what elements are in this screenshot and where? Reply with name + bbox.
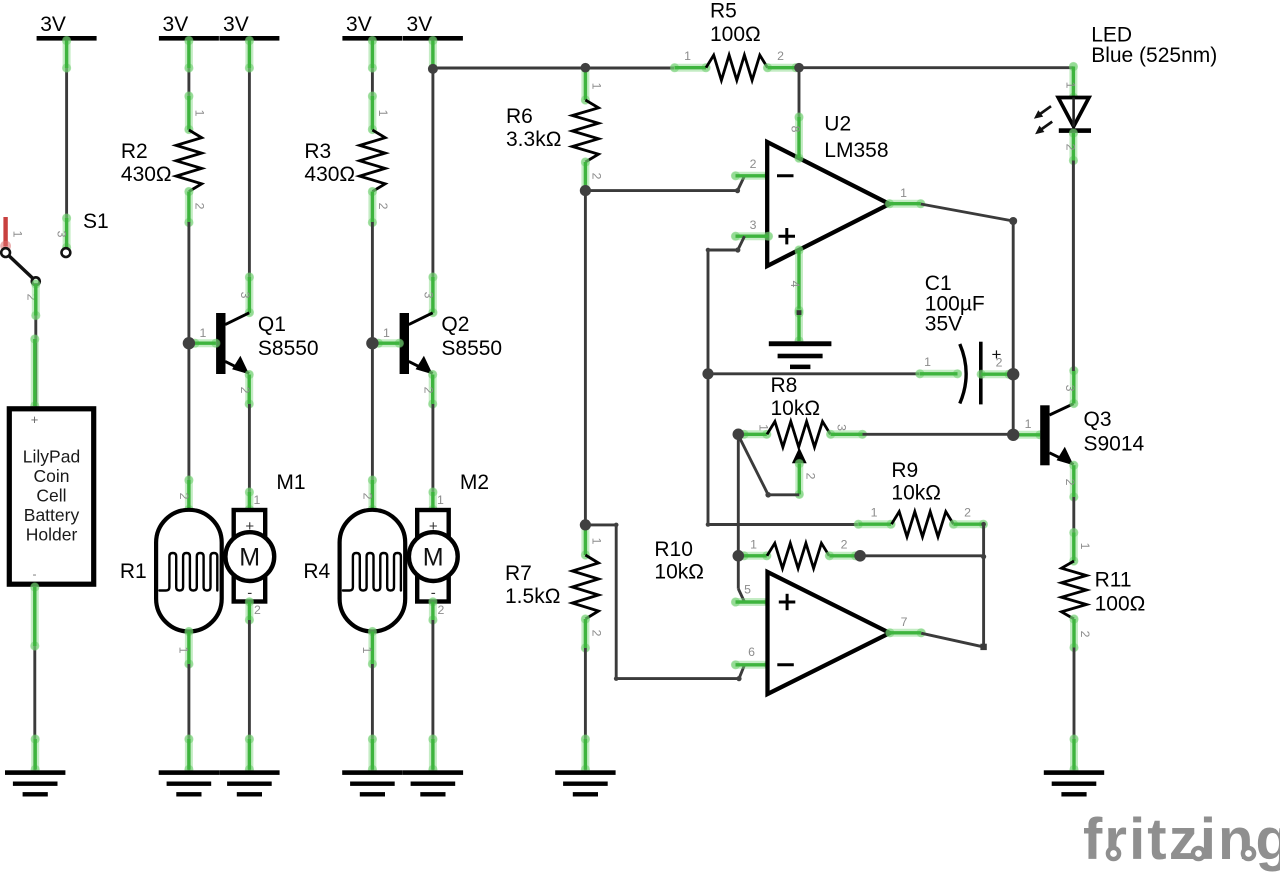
switch S1 pin1 red stub — [0, 217, 11, 251]
leg motor M2 pin 2 — [428, 597, 437, 624]
leg C1 pin 1 — [915, 369, 962, 378]
leg R8 pin 1 — [739, 430, 771, 439]
wire — [371, 41, 374, 131]
pin label R7-1 — [590, 538, 604, 545]
svg-text:3V: 3V — [163, 13, 189, 36]
leg U2 pin 7 (out B) — [885, 628, 926, 637]
power +3V P1 (S1 supply) — [37, 13, 97, 41]
leg U2 pin 1 (out A) — [885, 199, 926, 208]
svg-text:3V: 3V — [223, 13, 249, 36]
svg-text:2: 2 — [996, 356, 1003, 370]
svg-text:+: + — [31, 412, 39, 427]
leg U2 pin 4 (V-) — [794, 245, 803, 315]
node bendpoint R8 wiper — [765, 492, 771, 498]
leg R10 pin 1 — [739, 551, 771, 560]
leg U2 pin 2 (inverting in) — [731, 171, 773, 180]
pin label R2-1 — [192, 110, 206, 117]
svg-text:2: 2 — [590, 173, 604, 180]
label R4 — [303, 560, 330, 583]
pin label R8-3 — [835, 424, 849, 431]
transistor Q2 S8550 — [400, 313, 433, 374]
wire C1row junction down then right to R9 — [708, 374, 858, 525]
node bendpoint U2 pin3 — [735, 247, 740, 252]
svg-text:fritzing: fritzing — [1083, 807, 1280, 872]
LED D1 Blue 525nm — [1058, 98, 1091, 133]
label R2 — [121, 140, 172, 186]
wire — [433, 67, 674, 70]
wire — [738, 176, 745, 191]
pin label U2-1 — [900, 186, 907, 200]
wire out A down to C1 — [1012, 221, 1015, 435]
leg R8 pin 3 — [826, 430, 867, 439]
ground G8 (U2 pin4) — [769, 341, 832, 369]
wire Q3 emitter to R11 — [1072, 497, 1075, 533]
svg-text:1: 1 — [176, 647, 190, 654]
fritzing logo watermark — [1083, 807, 1280, 872]
pin label U2-8 — [789, 126, 803, 133]
wire — [585, 189, 737, 192]
pin label R2-2 — [192, 203, 206, 210]
svg-text:Cell: Cell — [36, 486, 66, 506]
svg-text:U2: U2 — [824, 113, 851, 136]
svg-text:R9: R9 — [891, 459, 918, 482]
leg R11 pin 2 — [1069, 614, 1078, 652]
pin label R9-2 — [964, 506, 971, 520]
svg-text:M2: M2 — [460, 471, 489, 494]
leg ground G1 stub — [31, 734, 40, 774]
ground G6 (R7) — [555, 770, 615, 796]
svg-text:S8550: S8550 — [441, 337, 502, 360]
leg U2 pin 3 (non-inverting in) — [731, 232, 773, 241]
svg-text:2: 2 — [437, 603, 444, 617]
node corner R9 pin2 — [981, 522, 986, 527]
leg LED pin 1 (anode) — [1069, 62, 1078, 102]
svg-text:R8: R8 — [771, 374, 798, 397]
pin label LED-1 — [1064, 82, 1078, 89]
leg Q1 pin 3 (collector) — [245, 272, 254, 317]
svg-text:1: 1 — [871, 506, 878, 520]
R8 wiper arrow — [792, 448, 807, 464]
pin label R10-2 — [841, 538, 848, 552]
svg-text:100Ω: 100Ω — [710, 23, 761, 46]
label C1 — [925, 272, 985, 336]
svg-text:1: 1 — [376, 110, 390, 117]
svg-text:35V: 35V — [925, 313, 962, 336]
leg 3V pin above Q1 collector — [245, 36, 254, 73]
pin label R7-2 — [590, 630, 604, 637]
leg Q3 pin 1 (base) — [1009, 430, 1045, 439]
resistor R3 430&#937; — [360, 130, 386, 192]
pin label S1-1 — [11, 231, 25, 238]
leg 3V P1 pin — [62, 36, 71, 73]
svg-text:Battery: Battery — [24, 505, 80, 525]
svg-text:1: 1 — [192, 110, 206, 117]
svg-text:S1: S1 — [83, 210, 109, 233]
node corner R7row — [614, 523, 619, 528]
leg ground stub under U2 — [794, 308, 803, 345]
svg-text:M: M — [423, 544, 444, 572]
power +3V P4 (R3 supply) — [342, 13, 402, 41]
resistor R8 10k&#937; (trimmer) — [767, 422, 830, 448]
svg-text:2: 2 — [238, 387, 252, 394]
resistor R11 100&#937; — [1062, 561, 1087, 619]
svg-text:430Ω: 430Ω — [121, 163, 172, 186]
svg-text:8: 8 — [789, 126, 803, 133]
leg 3V pin above R2 — [184, 36, 193, 73]
svg-text:R11: R11 — [1095, 569, 1132, 592]
leg LED pin 2 (cathode) — [1069, 128, 1078, 165]
svg-text:1: 1 — [750, 538, 757, 552]
leg Q2 pin 3 (collector) — [428, 272, 437, 317]
LED light arrows — [1034, 106, 1052, 134]
wire — [371, 664, 374, 770]
pin label U2-2 — [750, 157, 757, 171]
node S1 pin3 terminal — [62, 248, 71, 257]
wire R8 wiper to pin1 (rheostat) — [739, 436, 800, 495]
svg-text:2: 2 — [177, 493, 191, 500]
svg-text:S9014: S9014 — [1084, 433, 1145, 456]
pin label R1-2 — [177, 493, 191, 500]
pin label U2-7 — [901, 615, 908, 629]
label R3 — [304, 140, 355, 186]
wire R9 pin2 down — [982, 524, 985, 647]
pin label C1-2 — [996, 356, 1003, 370]
pin label Q3-1 — [1025, 417, 1032, 431]
svg-text:R10: R10 — [654, 538, 693, 561]
label R7 — [505, 562, 560, 608]
leg photoresistor R4 pin 1 — [368, 627, 377, 669]
label R1 — [120, 560, 147, 583]
label U2 — [824, 113, 888, 163]
svg-text:1: 1 — [924, 355, 931, 369]
label S1 — [83, 210, 109, 233]
svg-text:3: 3 — [55, 231, 69, 238]
svg-text:R4: R4 — [303, 560, 330, 583]
pin label Q3-2 — [1063, 479, 1077, 486]
label R10 — [654, 538, 704, 584]
svg-text:LM358: LM358 — [824, 139, 888, 162]
wire — [65, 41, 68, 249]
svg-text:M1: M1 — [276, 471, 305, 494]
svg-text:2: 2 — [1064, 144, 1078, 151]
svg-text:1: 1 — [199, 326, 206, 340]
svg-text:R2: R2 — [121, 140, 148, 163]
resistor R9 10k&#937; — [892, 512, 954, 537]
leg U2 pin 6 (inverting in B) — [731, 660, 773, 669]
pin label R11-1 — [1078, 543, 1092, 550]
pin label R1-1 — [176, 647, 190, 654]
transistor Q3 S9014 — [1040, 404, 1073, 466]
node corner pin3 route — [706, 248, 711, 253]
wire — [584, 191, 587, 525]
pin label U2-6 — [748, 645, 755, 659]
svg-text:2: 2 — [254, 603, 261, 617]
photoresistor R4 — [340, 510, 406, 632]
pin label M1-1 — [253, 493, 260, 507]
leg R3 pin 1 — [368, 91, 377, 134]
leg R7 pin 2 — [581, 614, 590, 652]
svg-text:2: 2 — [841, 538, 848, 552]
leg S1 pin 3 — [62, 213, 71, 252]
wire — [248, 620, 251, 770]
leg Q1 pin 2 (emitter) — [245, 370, 254, 409]
power +3V P5 (Q2 collector / rail supply) — [403, 13, 463, 41]
leg photoresistor R4 pin 2 — [368, 475, 377, 514]
svg-text:7: 7 — [901, 615, 908, 629]
svg-text:2: 2 — [360, 493, 374, 500]
capacitor C1 100uF 35V — [960, 342, 1002, 405]
wire — [248, 41, 251, 314]
node bendpoint to U2 pin2 — [735, 188, 740, 193]
pin label Q2-2 — [421, 387, 435, 394]
leg R5 pin 1 — [670, 63, 711, 72]
svg-text:1: 1 — [253, 493, 260, 507]
pin label R5-2 — [777, 49, 784, 63]
node R7 top junction — [580, 519, 591, 530]
ground G7 (R11) — [1044, 770, 1104, 796]
svg-text:R7: R7 — [505, 562, 532, 585]
label R6 — [506, 105, 561, 151]
leg U2 pin 5 (non-inverting in B) — [731, 597, 773, 606]
wire to U2 pin6 (three segments) — [585, 525, 739, 679]
wire — [431, 620, 434, 770]
pin label R10-1 — [750, 538, 757, 552]
leg R6 pin 2 — [581, 157, 590, 195]
svg-text:3V: 3V — [346, 13, 372, 36]
label M2 — [460, 471, 489, 494]
label R11 — [1095, 569, 1146, 616]
svg-text:2: 2 — [804, 473, 818, 480]
leg Q2 pin 2 (emitter) — [428, 370, 437, 409]
wire — [708, 372, 919, 375]
leg Q3 pin 2 (emitter) — [1069, 461, 1078, 502]
svg-text:2: 2 — [964, 506, 971, 520]
wire — [34, 283, 37, 407]
pin label R5-1 — [684, 49, 691, 63]
resistor R2 430&#937; — [176, 130, 202, 192]
wire U2 out B diagonal — [921, 633, 983, 647]
photoresistor R1 — [156, 510, 222, 632]
leg battery - pin — [30, 582, 39, 650]
node C1-outA junction — [1007, 368, 1019, 380]
pin label Q2-1 — [383, 326, 390, 340]
leg ground stub under R4 — [368, 734, 377, 774]
node Q3 base junction — [1007, 429, 1019, 441]
wire R10 pin2 to R9 vertical — [860, 554, 984, 557]
wire — [187, 41, 190, 131]
svg-text:100Ω: 100Ω — [1095, 593, 1146, 616]
leg R5 pin 2 — [763, 63, 801, 72]
node R10 pin1 junction — [733, 550, 745, 562]
leg photoresistor R1 pin 2 — [184, 475, 193, 514]
svg-text:R1: R1 — [120, 560, 147, 583]
svg-text:3: 3 — [835, 424, 849, 431]
svg-text:3: 3 — [421, 292, 435, 299]
svg-text:2: 2 — [777, 49, 784, 63]
svg-text:3: 3 — [1063, 385, 1077, 392]
node Q1 base junction — [183, 337, 195, 349]
svg-text:Blue (525nm): Blue (525nm) — [1091, 44, 1217, 67]
svg-text:M: M — [239, 544, 260, 572]
node S1 pin1 terminal — [1, 248, 10, 257]
pin label S1-2 — [25, 294, 39, 301]
wire R8pin1 down to R10pin1 — [737, 434, 740, 556]
ground G1 (battery) — [5, 770, 65, 796]
leg S1 pin 2 — [31, 279, 40, 320]
pin label M2-2 — [437, 603, 444, 617]
leg ground stub under M1 — [245, 734, 254, 774]
node rail-R5/pin8 junction — [794, 63, 804, 73]
pin label R8-1 — [757, 424, 771, 431]
leg R2 pin 1 — [184, 91, 193, 134]
svg-text:3V: 3V — [40, 13, 66, 36]
leg U2 pin 8 (V+) — [794, 112, 803, 162]
svg-text:1: 1 — [900, 186, 907, 200]
pin label M2-1 — [437, 493, 444, 507]
wire — [431, 41, 434, 314]
svg-text:Q2: Q2 — [441, 313, 469, 336]
op-amp U2 part A (LM358) — [767, 142, 889, 266]
pin label U2-4 — [788, 281, 802, 288]
leg R6 pin 1 — [581, 64, 590, 105]
leg Q3 pin 3 (collector) — [1069, 366, 1078, 408]
svg-text:2: 2 — [750, 157, 757, 171]
leg R9 pin 1 — [854, 520, 896, 529]
leg R10 pin 2 — [825, 551, 860, 560]
leg R8 pin 2 (wiper) — [795, 459, 804, 499]
svg-text:1: 1 — [360, 647, 374, 654]
pin label R6-1 — [590, 83, 604, 90]
leg battery + pin — [30, 334, 39, 410]
pin label Q1-1 — [199, 326, 206, 340]
motor M2 — [409, 510, 458, 602]
wire — [1073, 648, 1076, 771]
leg ground stub under R7 — [581, 734, 590, 774]
wire — [248, 404, 251, 510]
pin label R9-1 — [871, 506, 878, 520]
svg-text:1: 1 — [1025, 417, 1032, 431]
op-amp U2 part B (LM358) — [768, 572, 890, 694]
leg Q1 pin 1 (base) — [190, 339, 220, 348]
label Q1 — [258, 313, 319, 360]
svg-text:1: 1 — [684, 49, 691, 63]
svg-text:2: 2 — [1063, 479, 1077, 486]
transistor Q1 S8550 — [216, 313, 249, 374]
leg motor M1 pin 2 — [245, 597, 254, 624]
node bendpoint R9-R10 row — [981, 554, 986, 559]
ground G3 (M1) — [219, 770, 279, 796]
ground G4 (R4) — [342, 770, 402, 796]
node rail at P5 — [428, 64, 438, 74]
wire R10pin1 down to U2 pin5 — [738, 556, 744, 602]
svg-text:R3: R3 — [304, 140, 331, 163]
svg-text:LilyPad: LilyPad — [23, 447, 80, 467]
pin label LED-2 — [1064, 144, 1078, 151]
svg-text:1: 1 — [590, 83, 604, 90]
pin label Q3-3 — [1063, 385, 1077, 392]
node C1 row left junction — [702, 368, 713, 379]
leg 3V pin above R3 — [368, 36, 377, 73]
node corner R9 route — [706, 522, 711, 527]
pin label R6-2 — [590, 173, 604, 180]
switch S1 lever — [9, 256, 40, 286]
battery LilyPad coin cell holder BT1 — [9, 409, 93, 584]
pin label R3-2 — [376, 203, 390, 210]
svg-text:Coin: Coin — [34, 466, 70, 486]
leg photoresistor R1 pin 1 — [184, 627, 193, 669]
leg C1 pin 2 — [977, 370, 1014, 379]
label M1 — [276, 471, 305, 494]
svg-text:1: 1 — [11, 231, 25, 238]
svg-text:2: 2 — [376, 203, 390, 210]
pin label R4-1 — [360, 647, 374, 654]
svg-text:Holder: Holder — [26, 525, 78, 545]
svg-text:10kΩ: 10kΩ — [654, 561, 704, 584]
resistor R7 1.5k&#937; — [572, 555, 598, 619]
wire R8 pin3 to Q3 base — [863, 433, 1014, 436]
label R9 — [891, 459, 941, 505]
label LED — [1091, 24, 1217, 68]
wire — [33, 587, 36, 771]
svg-text:3: 3 — [238, 292, 252, 299]
svg-text:1: 1 — [1078, 543, 1092, 550]
node Q2 base junction — [366, 337, 378, 349]
resistor R5 100&#937; — [706, 55, 768, 80]
label Q3 — [1084, 408, 1145, 456]
leg R7 pin 1 — [581, 521, 590, 560]
svg-text:3V: 3V — [407, 13, 433, 36]
wire rail corner to LED — [1072, 68, 1075, 98]
leg motor M2 pin 1 — [428, 487, 437, 514]
leg ground stub under M2 — [428, 734, 437, 774]
svg-text:430Ω: 430Ω — [304, 163, 355, 186]
wire — [187, 222, 190, 510]
leg R3 pin 2 — [368, 187, 377, 227]
wire — [798, 68, 801, 118]
pin label M1-2 — [254, 603, 261, 617]
resistor R10 10k&#937; — [767, 543, 829, 568]
pin label Q2-3 — [421, 292, 435, 299]
node bendpoint to U2 pin6 — [736, 676, 741, 681]
svg-text:1.5kΩ: 1.5kΩ — [505, 585, 560, 608]
svg-text:2: 2 — [1078, 631, 1092, 638]
node R10 pin2 junction — [854, 550, 866, 562]
pin label C1-1 — [924, 355, 931, 369]
node R6 output junction — [580, 185, 591, 196]
wire U2 out diagonal — [921, 204, 1013, 221]
ground G2 (R1) — [159, 770, 219, 796]
svg-text:5: 5 — [744, 583, 751, 597]
svg-text:10kΩ: 10kΩ — [891, 482, 941, 505]
power +3V P2 (R2 supply) — [159, 13, 219, 41]
svg-text:Q1: Q1 — [258, 313, 286, 336]
wire — [739, 665, 745, 679]
wire pin3 to C1 row — [708, 250, 738, 374]
label Q2 — [441, 313, 502, 360]
leg ground stub under R11 — [1069, 734, 1078, 774]
leg motor M1 pin 1 — [245, 487, 254, 514]
wire U2 pin3 jog — [738, 236, 745, 250]
ground G5 (M2) — [403, 770, 463, 796]
svg-text:-: - — [33, 567, 37, 581]
svg-text:2: 2 — [590, 630, 604, 637]
svg-text:3.3kΩ: 3.3kΩ — [506, 128, 561, 151]
wire — [584, 648, 587, 770]
svg-text:S8550: S8550 — [258, 337, 319, 360]
power +3V P3 (Q1 collector supply) — [219, 13, 279, 41]
wire — [799, 66, 1073, 69]
motor M1 — [225, 510, 274, 602]
